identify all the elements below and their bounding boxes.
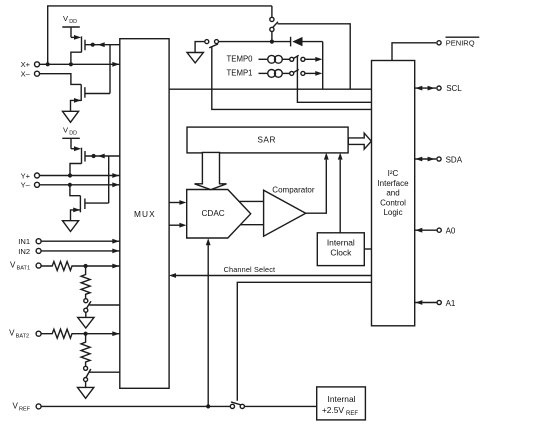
arrowhead Y- into MUX xyxy=(112,182,119,187)
ground temp sense xyxy=(187,53,203,63)
svg-text:CDAC: CDAC xyxy=(202,209,225,218)
svg-text:SAR: SAR xyxy=(257,135,276,145)
svg-text:V: V xyxy=(9,329,15,338)
wire Q1 gate to MUX xyxy=(85,44,120,46)
svg-text:TEMP0: TEMP0 xyxy=(227,55,254,64)
wire gate bus Y drivers xyxy=(108,156,110,203)
Channel Select wire I2C to MUX xyxy=(169,265,372,278)
svg-text:BAT2: BAT2 xyxy=(16,334,30,340)
svg-text:MUX: MUX xyxy=(134,209,156,219)
wire S1 control to MUX xyxy=(89,304,119,306)
terminal A1 xyxy=(415,299,456,308)
svg-text:Internal: Internal xyxy=(328,394,356,404)
svg-text:SCL: SCL xyxy=(446,84,462,93)
svg-text:I²C: I²C xyxy=(388,169,399,178)
wire CDAC to comparator upper xyxy=(239,200,264,202)
resistor R4 VBAT2 divider xyxy=(81,334,90,367)
wire S1 to ground xyxy=(85,312,87,317)
arrowhead clock to SAR xyxy=(338,153,343,160)
arrowhead Y+ into MUX xyxy=(112,173,119,178)
wire Q3 gate to MUX xyxy=(85,155,120,157)
arrowhead VBAT1 into MUX xyxy=(112,264,119,269)
I2C Interface and Control Logic box U-I2C xyxy=(372,61,415,326)
node X+ riser junction xyxy=(46,62,50,66)
svg-text:Comparator: Comparator xyxy=(272,186,315,195)
wire TEMP0 to temp bus xyxy=(305,58,316,60)
svg-text:V: V xyxy=(63,125,69,134)
ground VBAT1 divider xyxy=(78,317,94,328)
transistor Q3 Y+ high-side driver xyxy=(70,146,85,173)
svg-text:Logic: Logic xyxy=(383,208,402,217)
node VBAT1 divider junction xyxy=(84,264,88,268)
Internal Clock box xyxy=(317,233,364,266)
svg-text:TEMP1: TEMP1 xyxy=(227,69,253,78)
switch S3 internal reference xyxy=(230,402,244,409)
wire temp switch levers to I2C logic xyxy=(297,56,371,102)
terminal X- xyxy=(21,70,40,79)
switch S1 VBAT1 divider xyxy=(84,299,91,313)
svg-text:Y+: Y+ xyxy=(21,171,31,180)
svg-text:Clock: Clock xyxy=(330,247,352,257)
svg-text:Control: Control xyxy=(380,198,406,207)
svg-text:Internal: Internal xyxy=(327,237,355,247)
terminal Y- xyxy=(21,181,40,190)
wire IN2 to MUX xyxy=(41,250,120,252)
node VREF to CDAC junction xyxy=(206,404,210,408)
hollow bus arrow SAR to CDAC xyxy=(195,152,227,189)
wire temp bus down to I2C wire xyxy=(322,42,324,90)
switch S4 pen interrupt (PENIRQ) xyxy=(270,17,278,31)
svg-text:X–: X– xyxy=(21,70,31,79)
transistor Q2 X- low-side driver xyxy=(71,84,111,111)
arrowhead MUX to Q3 gate xyxy=(98,154,105,159)
arrowhead VBAT2 into MUX xyxy=(112,331,119,336)
ground Y driver xyxy=(63,221,79,232)
svg-text:REF: REF xyxy=(19,406,31,412)
diode D1 temperature sensor xyxy=(291,37,303,47)
node Y+ driver junction xyxy=(68,173,72,177)
switch S6 TEMP0 xyxy=(290,55,305,61)
wire Y- to Q4 drain xyxy=(70,185,81,196)
terminal IN1 xyxy=(18,237,41,246)
terminal SDA xyxy=(415,155,463,164)
wire TEMP1 to temp bus xyxy=(305,72,316,74)
wire X- to Q2 drain xyxy=(39,74,81,85)
wire top rail pen switch drop xyxy=(271,6,273,17)
node Q1 gate line junction xyxy=(91,43,95,47)
svg-text:A1: A1 xyxy=(446,299,456,308)
comparator U-COMP xyxy=(264,186,315,237)
wire IN1 to MUX xyxy=(41,240,120,242)
transistor Q4 Y- low-side driver xyxy=(71,196,109,221)
arrowhead VREF into CDAC xyxy=(206,238,211,245)
transistor Q1 X+ high-side driver xyxy=(71,35,85,62)
ground VBAT2 divider xyxy=(78,387,94,398)
wire Y- to MUX xyxy=(39,184,119,186)
wire internal clock to SAR xyxy=(339,160,341,233)
arrowhead TEMP0 to bus xyxy=(315,57,322,62)
resistor R2 VBAT1 divider xyxy=(81,266,90,299)
supply VDD Y-driver xyxy=(62,125,80,148)
wire VBAT1 node to MUX xyxy=(86,265,120,267)
svg-text:IN2: IN2 xyxy=(18,247,30,256)
wire MUX to CDAC input 2 xyxy=(169,224,180,226)
arrowhead into CDAC input 1 xyxy=(179,200,186,205)
wire X+ to MUX xyxy=(39,63,119,65)
Internal +2.5V reference box xyxy=(317,387,366,420)
MUX box xyxy=(120,39,169,389)
svg-text:Channel Select: Channel Select xyxy=(224,265,276,274)
svg-text:V: V xyxy=(63,14,69,23)
terminal X+ xyxy=(21,60,40,69)
svg-text:PENIRQ: PENIRQ xyxy=(446,38,475,47)
current source TEMP1 xyxy=(227,69,290,78)
wire MUX to I2C logic (node A) xyxy=(169,88,372,90)
arrowhead IN2 into MUX xyxy=(112,249,119,254)
svg-text:V: V xyxy=(13,401,19,410)
terminal VBAT2 xyxy=(9,329,41,340)
ground X driver xyxy=(63,111,79,122)
terminal Y+ xyxy=(21,171,40,180)
node VBAT2 divider junction xyxy=(84,332,88,336)
wire S2 control to MUX xyxy=(89,371,120,373)
switch S7 TEMP1 xyxy=(290,69,305,75)
svg-text:IN1: IN1 xyxy=(18,237,30,246)
terminal VBAT1 xyxy=(10,261,41,272)
svg-text:Interface: Interface xyxy=(377,179,409,188)
terminal VREF xyxy=(13,401,42,412)
svg-text:and: and xyxy=(386,189,399,198)
wire sense rail to diode xyxy=(219,41,291,43)
wire comparator output to SAR xyxy=(306,160,327,214)
svg-text:A0: A0 xyxy=(446,227,456,236)
supply VDD X-driver xyxy=(62,14,80,37)
switch S2 VBAT2 divider xyxy=(84,366,91,381)
arrowhead IN1 into MUX xyxy=(112,239,119,244)
wire pen switch lower to X rail xyxy=(271,32,273,42)
svg-text:SDA: SDA xyxy=(446,155,463,164)
wire diode to temp bus xyxy=(303,41,323,43)
svg-text:V: V xyxy=(10,261,16,270)
resistor R3 VBAT2 series xyxy=(41,329,86,338)
arrowhead into CDAC input 2 xyxy=(179,223,186,228)
arrowhead comparator to SAR xyxy=(324,153,329,160)
wire S2 to ground xyxy=(85,382,87,388)
wire S3 to internal reference box xyxy=(244,405,316,407)
svg-text:BAT1: BAT1 xyxy=(17,266,31,272)
node pen sense junction xyxy=(270,40,274,44)
node Q3 gate line junction xyxy=(92,154,96,158)
wire Y+ to MUX xyxy=(39,175,119,177)
wire VREF to reference switch xyxy=(41,405,231,407)
wire gate bus X drivers xyxy=(109,45,111,94)
arrowhead MUX to Q1 gate xyxy=(98,42,105,47)
svg-text:+2.5V: +2.5V xyxy=(322,405,345,415)
terminal A0 xyxy=(415,227,456,236)
hollow bus arrow SAR to I2C logic xyxy=(348,133,371,149)
terminal PENIRQ xyxy=(392,37,479,60)
node Y- driver junction xyxy=(68,183,72,187)
wire S5 to ground xyxy=(195,42,205,53)
current source TEMP0 xyxy=(227,55,290,64)
wire VREF node up to CDAC xyxy=(207,245,209,407)
switch S5 temp/ground sense xyxy=(205,40,219,48)
node X+ driver drain junction xyxy=(69,62,73,66)
wire S5 lever to I2C logic xyxy=(212,47,372,110)
svg-text:X+: X+ xyxy=(21,60,31,69)
wire MUX to CDAC input 1 xyxy=(169,202,180,204)
CDAC capacitor DAC xyxy=(187,190,251,239)
SAR register box xyxy=(187,127,348,153)
wire VBAT2 node to MUX xyxy=(86,333,120,335)
terminal IN2 xyxy=(18,247,41,256)
wire CDAC to comparator lower xyxy=(240,224,263,226)
wire S3 control from I2C logic xyxy=(237,282,371,401)
svg-text:DD: DD xyxy=(69,19,77,25)
terminal SCL xyxy=(415,84,463,93)
wire internal clock to I2C logic xyxy=(364,248,371,250)
arrowhead TEMP1 to bus xyxy=(315,71,322,76)
svg-text:REF: REF xyxy=(346,411,358,417)
arrowhead X+ into MUX xyxy=(112,62,119,67)
wire pen switch to I2C logic xyxy=(278,24,351,89)
svg-text:Y–: Y– xyxy=(21,181,31,190)
svg-text:DD: DD xyxy=(69,131,77,137)
wire X+ riser to top rail xyxy=(48,6,272,64)
resistor R1 VBAT1 series xyxy=(41,262,86,271)
